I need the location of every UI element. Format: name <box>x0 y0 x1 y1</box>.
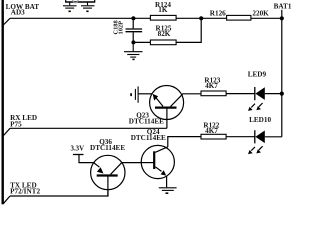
net label LOW BAT / AD3 <box>6 3 40 16</box>
node junction R124/R125/R126 <box>199 16 203 20</box>
net label TX LED / P72/INT2 <box>10 181 40 195</box>
svg-text:LED9: LED9 <box>248 70 267 78</box>
capacitor C188 <box>126 18 143 42</box>
ground under Q24 <box>159 188 177 193</box>
wire TX LED net (row y=196) <box>10 190 108 196</box>
svg-text:DTC114EE: DTC114EE <box>131 134 166 142</box>
pin circle (cut off at top) <box>73 0 78 3</box>
ground (top right) <box>81 2 95 11</box>
wire Q24 emitter to ground <box>166 176 168 187</box>
wire Q23 emitter to ground <box>139 93 152 95</box>
transistor Q23 <box>150 86 201 129</box>
node junction at C188 top <box>131 16 135 20</box>
LED LED10 <box>248 130 282 154</box>
wire TX LED stub from border <box>4 196 10 203</box>
node junction at C188 bottom <box>131 40 135 44</box>
wire R125 row (y=42.4) <box>133 18 201 42</box>
wire RX LED stub from border <box>3 128 10 135</box>
svg-text:102P: 102P <box>117 21 124 35</box>
svg-text:AD3: AD3 <box>11 8 25 16</box>
resistor R123 <box>201 91 226 96</box>
node junction LED9/BAT1 <box>280 92 284 96</box>
net label RX LED / P75 <box>10 114 37 129</box>
wire Q24 collector to R122 (row y=136.6) <box>168 137 201 147</box>
wire LOW BAT stub from border <box>3 18 10 25</box>
transistor Q36 <box>91 155 125 196</box>
svg-text:4K7: 4K7 <box>205 82 218 90</box>
schematic sheet border (left edge) <box>2 0 4 204</box>
resistor R125 <box>150 40 176 45</box>
wire Q36 collector to Q24 base <box>122 162 141 164</box>
resistor R124 <box>150 15 176 20</box>
ground (top left) <box>63 2 77 11</box>
net label BAT1 <box>274 2 292 10</box>
wire RX LED net (row y=128.3) <box>10 127 167 129</box>
svg-text:1K: 1K <box>158 6 168 14</box>
node junction BAT1/R126 <box>280 16 284 20</box>
svg-text:R126: R126 <box>210 10 226 18</box>
resistor R126 <box>227 15 251 20</box>
transistor Q24 <box>141 145 174 178</box>
LED LED9 <box>248 87 282 111</box>
svg-text:82K: 82K <box>158 30 171 38</box>
top connector line (cut off at top) <box>65 1 95 3</box>
svg-text:LED10: LED10 <box>249 116 271 124</box>
svg-text:DTC114EE: DTC114EE <box>129 117 164 125</box>
svg-text:3.3V: 3.3V <box>71 145 85 152</box>
svg-text:DTC114EE: DTC114EE <box>90 144 125 152</box>
wire LOW BAT net (row y=18.3) <box>10 17 282 19</box>
svg-text:220K: 220K <box>252 10 269 18</box>
svg-text:4K7: 4K7 <box>205 127 218 135</box>
wire R122 to LED10 <box>226 136 255 138</box>
wire R123 to LED9 <box>226 93 255 95</box>
svg-text:BAT1: BAT1 <box>274 2 292 10</box>
ground under C188 <box>124 42 143 59</box>
resistor R122 <box>201 134 226 139</box>
power tap 3.3V <box>73 155 94 163</box>
ground (rotated, Q23 emitter) <box>131 86 138 102</box>
svg-text:P75: P75 <box>10 121 22 129</box>
value label C188 102P (rotated) <box>113 20 125 34</box>
svg-text:P72/INT2: P72/INT2 <box>10 188 40 196</box>
wire BAT1 rail <box>281 10 283 137</box>
